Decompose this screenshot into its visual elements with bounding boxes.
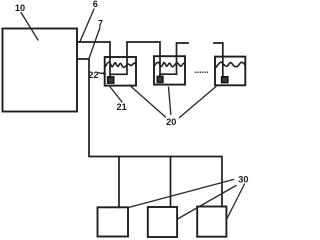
svg-text:21: 21 xyxy=(116,102,126,112)
svg-text:6: 6 xyxy=(93,0,98,9)
svg-text:10: 10 xyxy=(15,3,25,13)
svg-text:22: 22 xyxy=(88,70,98,80)
svg-text:30: 30 xyxy=(238,175,248,185)
svg-text:7: 7 xyxy=(98,18,103,28)
svg-text:20: 20 xyxy=(166,117,176,127)
